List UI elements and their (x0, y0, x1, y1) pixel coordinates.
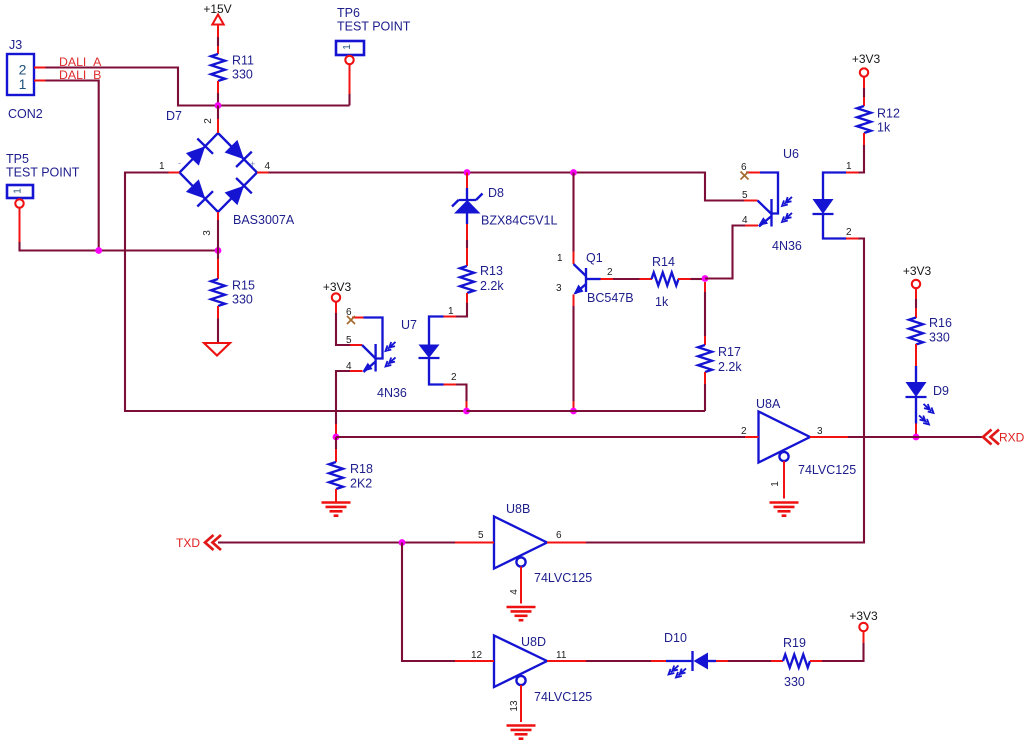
svg-text:1: 1 (19, 76, 27, 92)
svg-text:-: - (178, 158, 181, 168)
test point TP6 (336, 6, 411, 94)
wire (125, 173, 467, 412)
svg-text:D7: D7 (166, 109, 182, 123)
wire (456, 303, 467, 317)
wire (691, 278, 706, 280)
svg-text:330: 330 (929, 331, 950, 345)
wire (217, 106, 219, 120)
wire (20, 242, 219, 251)
svg-text:330: 330 (232, 293, 253, 307)
ground (770, 503, 799, 516)
svg-text:1: 1 (342, 44, 353, 50)
junction (570, 169, 577, 176)
junction (913, 434, 920, 441)
svg-text:R18: R18 (350, 462, 373, 476)
svg-text:U8B: U8B (506, 502, 530, 516)
svg-text:74LVC125: 74LVC125 (534, 690, 592, 704)
svg-text:R15: R15 (232, 279, 255, 293)
wire (586, 239, 864, 543)
wire (572, 306, 574, 401)
power +3V3 (849, 609, 878, 643)
svg-text:D8: D8 (488, 186, 504, 200)
wire (466, 401, 468, 411)
svg-text:D10: D10 (664, 631, 687, 645)
svg-text:2: 2 (451, 372, 457, 383)
wire (573, 401, 575, 411)
wire (218, 541, 455, 543)
zener diode D8 BZX84C5V1L (452, 173, 557, 228)
junction (399, 539, 406, 546)
svg-text:Q1: Q1 (586, 251, 603, 265)
bridge rectifier D7 BAS3007A (159, 109, 295, 236)
wire (217, 93, 219, 106)
wire (336, 313, 350, 345)
power +15V (203, 2, 231, 37)
svg-text:TEST POINT: TEST POINT (6, 166, 80, 180)
resistor R19 (728, 636, 822, 689)
svg-text:R19: R19 (783, 636, 806, 650)
svg-text:1: 1 (448, 306, 454, 317)
wire (217, 37, 219, 46)
svg-text:+3V3: +3V3 (903, 264, 932, 278)
power +3V3 (852, 52, 881, 88)
svg-text:3: 3 (556, 283, 562, 294)
svg-text:R12: R12 (877, 107, 900, 121)
net label DALI_B (59, 68, 101, 82)
svg-text:U6: U6 (783, 147, 799, 161)
junction (570, 408, 577, 415)
wire (335, 424, 337, 437)
svg-text:330: 330 (232, 68, 253, 82)
junction (215, 102, 222, 109)
svg-text:4: 4 (509, 589, 520, 595)
svg-text:R13: R13 (480, 264, 503, 278)
svg-text:D9: D9 (933, 384, 949, 398)
resistor R17 (698, 282, 742, 384)
svg-text:3: 3 (817, 426, 823, 437)
resistor R13 (460, 264, 504, 303)
svg-text:1: 1 (846, 161, 852, 172)
wire (402, 543, 455, 662)
svg-text:1k: 1k (655, 295, 669, 309)
svg-text:12: 12 (471, 650, 483, 661)
svg-text:6: 6 (556, 530, 562, 541)
buffer U8B 74LVC125 (455, 502, 592, 604)
svg-text:4N36: 4N36 (377, 386, 407, 400)
resistor R18 (329, 437, 373, 502)
resistor R14 (613, 255, 691, 309)
svg-text:+3V3: +3V3 (323, 280, 352, 294)
wire (217, 319, 219, 344)
ground (507, 726, 536, 739)
wire (336, 436, 745, 438)
svg-text:2: 2 (846, 227, 852, 238)
port RXD (983, 430, 1024, 445)
resistor R15 (211, 251, 255, 319)
svg-text:1: 1 (159, 161, 165, 172)
svg-text:2.2k: 2.2k (718, 360, 742, 374)
svg-text:RXD: RXD (999, 431, 1024, 445)
svg-text:TP6: TP6 (337, 6, 360, 20)
power +3V3 (903, 264, 932, 299)
svg-text:2.2k: 2.2k (480, 279, 504, 293)
junction (702, 275, 709, 282)
wire (859, 145, 865, 173)
svg-text:R11: R11 (232, 54, 254, 68)
svg-text:11: 11 (556, 650, 567, 661)
svg-text:3: 3 (202, 230, 213, 236)
svg-text:1: 1 (557, 253, 563, 264)
svg-text:2K2: 2K2 (350, 477, 372, 491)
wire (456, 385, 467, 402)
wire (586, 660, 651, 662)
wire DALI_A (46, 68, 350, 106)
svg-text:2: 2 (203, 118, 214, 124)
wire (348, 94, 350, 106)
svg-text:6: 6 (741, 162, 747, 173)
svg-text:U8D: U8D (521, 635, 546, 649)
wire (269, 173, 745, 201)
svg-text:74LVC125: 74LVC125 (798, 463, 856, 477)
svg-text:R17: R17 (718, 345, 741, 359)
svg-text:+: + (250, 159, 255, 169)
svg-text:1: 1 (770, 481, 781, 487)
svg-text:CON2: CON2 (8, 107, 43, 121)
LED D9 (906, 366, 950, 437)
svg-text:330: 330 (784, 675, 805, 689)
net label DALI_A (59, 55, 102, 69)
svg-text:U7: U7 (401, 318, 417, 332)
svg-text:74LVC125: 74LVC125 (534, 571, 592, 585)
svg-text:13: 13 (509, 700, 520, 712)
svg-text:R16: R16 (929, 316, 952, 330)
optocoupler U7 4N36 (346, 306, 457, 400)
svg-text:TXD: TXD (176, 536, 200, 550)
test point TP5 (6, 152, 80, 242)
svg-text:4: 4 (742, 215, 748, 226)
svg-text:5: 5 (478, 530, 484, 541)
wire DALI_B (46, 81, 99, 251)
junction (463, 408, 470, 415)
transistor Q1 BC547B (556, 173, 634, 307)
svg-text:BC547B: BC547B (587, 291, 634, 305)
wire (848, 436, 983, 438)
svg-text:TP5: TP5 (6, 152, 29, 166)
junction (215, 247, 222, 254)
svg-text:+3V3: +3V3 (849, 609, 878, 623)
resistor R16 (909, 299, 952, 366)
LED D10 (651, 631, 728, 678)
wire (467, 410, 706, 412)
connector J3 (7, 38, 46, 121)
svg-text:1k: 1k (877, 121, 891, 135)
power +3V3 (323, 280, 352, 313)
buffer U8D 74LVC125 (455, 635, 592, 722)
junction (464, 169, 471, 176)
svg-text:U8A: U8A (756, 397, 781, 411)
svg-text:+3V3: +3V3 (852, 52, 881, 66)
port TXD (176, 535, 221, 550)
junction (333, 434, 340, 441)
optocoupler U6 4N36 (741, 147, 859, 253)
wire (336, 371, 350, 424)
buffer U8A 74LVC125 (741, 397, 856, 499)
svg-text:5: 5 (742, 190, 748, 201)
wire (704, 384, 706, 411)
svg-text:R14: R14 (652, 255, 675, 269)
wire (217, 220, 219, 251)
ground (507, 607, 536, 620)
resistor R11 (211, 46, 254, 93)
svg-text:BZX84C5V1L: BZX84C5V1L (481, 214, 557, 228)
svg-text:2: 2 (607, 267, 613, 278)
svg-text:2: 2 (741, 426, 747, 437)
svg-text:BAS3007A: BAS3007A (233, 213, 295, 227)
wire (466, 224, 468, 266)
svg-text:4N36: 4N36 (772, 239, 802, 253)
svg-text:TEST POINT: TEST POINT (337, 20, 411, 34)
wire (705, 226, 745, 279)
wire (822, 643, 864, 661)
svg-text:1: 1 (13, 188, 24, 194)
svg-text:4: 4 (265, 161, 271, 172)
junction (95, 247, 102, 254)
resistor R12 (857, 88, 900, 145)
ground (204, 343, 230, 356)
svg-text:J3: J3 (9, 38, 22, 52)
ground (322, 503, 351, 516)
